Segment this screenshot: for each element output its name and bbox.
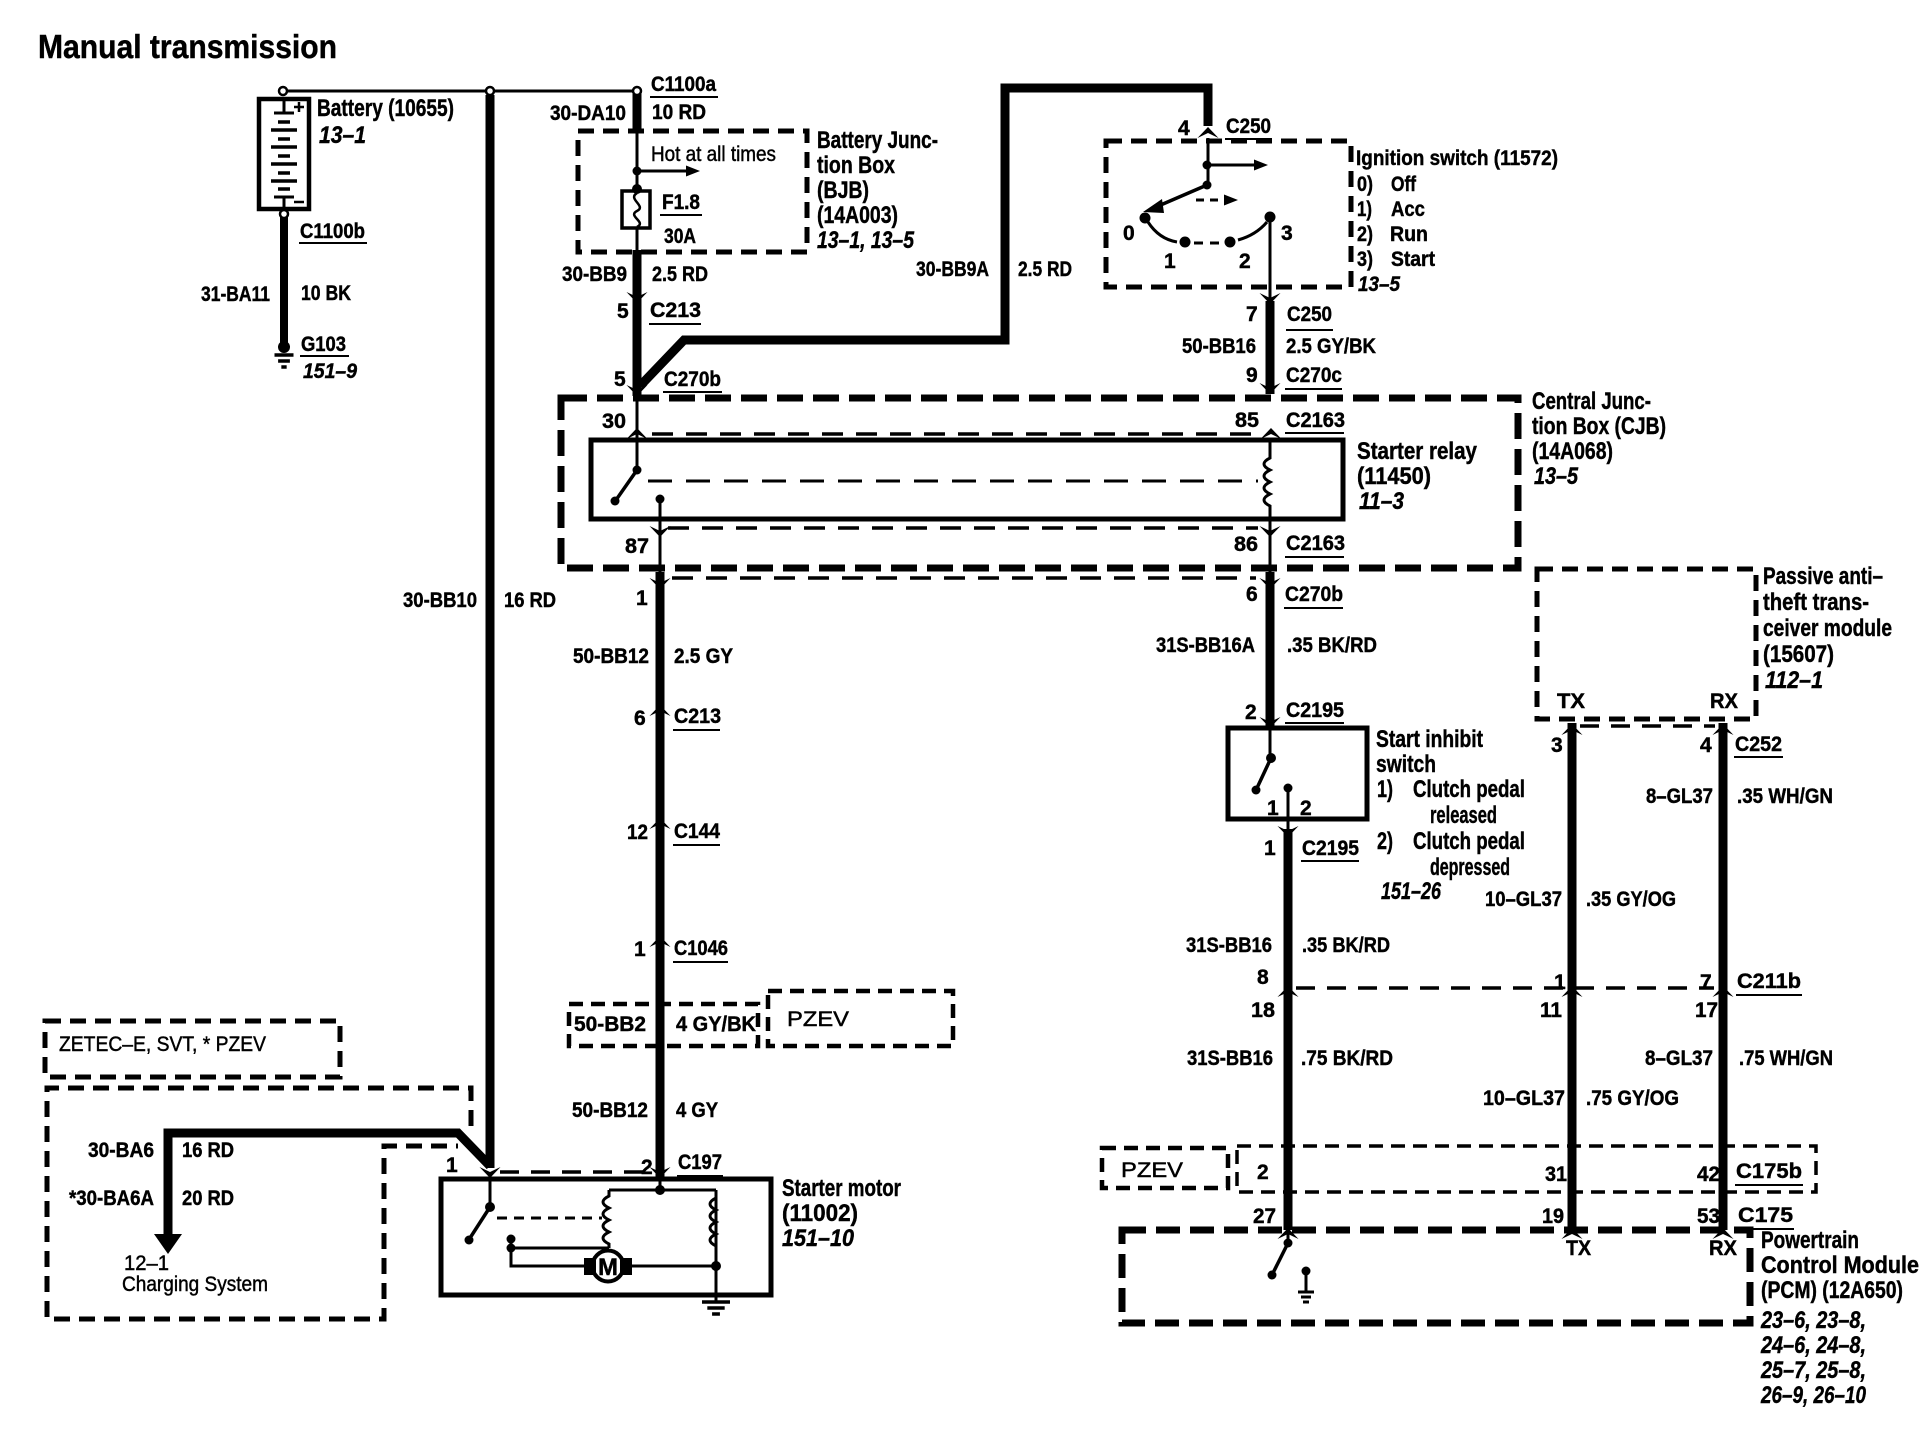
battery junction box BJB dashed box: [578, 131, 807, 252]
svg-text:30: 30: [602, 410, 626, 433]
svg-text:tion Box (CJB): tion Box (CJB): [1532, 413, 1666, 440]
node starter pin2 junction: [655, 1185, 665, 1195]
connector C252 pin 3: [1562, 724, 1583, 735]
svg-text:ceiver module: ceiver module: [1763, 615, 1892, 642]
svg-text:PZEV: PZEV: [1121, 1159, 1183, 1182]
svg-text:5: 5: [617, 300, 629, 323]
svg-text:.75 BK/RD: .75 BK/RD: [1301, 1047, 1393, 1070]
svg-text:theft trans-: theft trans-: [1763, 589, 1869, 616]
starter solenoid link dashed: [497, 1217, 602, 1220]
node ground leg junction: [711, 1261, 721, 1271]
svg-text:1: 1: [1267, 797, 1279, 820]
connector C1100b: [280, 210, 288, 218]
ignition switch (11572) dashed box: [1106, 141, 1351, 287]
svg-text:C197: C197: [678, 1151, 722, 1174]
connector C213 pin 5: [627, 292, 648, 303]
svg-text:2): 2): [1377, 828, 1393, 855]
svg-text:1): 1): [1377, 776, 1393, 803]
node fuse top terminal: [632, 184, 642, 194]
connector C250 pin 4: [1198, 127, 1219, 138]
svg-text:50-BB16: 50-BB16: [1182, 335, 1256, 358]
connector C2195 pin 2: [1260, 717, 1281, 728]
svg-text:9: 9: [1246, 364, 1258, 387]
connector C144 pin 12: [650, 818, 671, 829]
connector line C197: [500, 1170, 650, 1174]
svg-text:30-BB10: 30-BB10: [403, 589, 477, 612]
wire inhibit pin 1 out: [1287, 788, 1290, 829]
svg-text:1: 1: [636, 587, 648, 610]
svg-text:Starter relay: Starter relay: [1357, 438, 1478, 465]
connector C211b pin 1: [1562, 986, 1583, 997]
wire motor loop left: [511, 1248, 585, 1266]
svg-text:ZETEC–E, SVT, * PZEV: ZETEC–E, SVT, * PZEV: [59, 1033, 266, 1056]
svg-text:11: 11: [1540, 999, 1562, 1022]
svg-text:0): 0): [1357, 172, 1373, 196]
connector C270b pin 1: [650, 578, 671, 589]
svg-text:(15607): (15607): [1763, 641, 1834, 668]
start inhibit switch contact: [1252, 728, 1293, 795]
ground G103: [275, 341, 294, 367]
svg-text:depressed: depressed: [1430, 854, 1510, 881]
powertrain control module PCM dashed box: [1122, 1230, 1750, 1323]
svg-text:7: 7: [1700, 971, 1712, 994]
connector line C252: [1580, 724, 1715, 728]
node battery positive terminal: [279, 87, 287, 95]
svg-text:87: 87: [625, 535, 649, 558]
label Passive anti-theft transceiver module (15607): [1763, 563, 1892, 694]
svg-text:10–GL37: 10–GL37: [1483, 1087, 1565, 1110]
start inhibit switch box: [1228, 728, 1367, 819]
svg-text:.35 BK/RD: .35 BK/RD: [1302, 934, 1390, 957]
connector C175 pin 27: [1278, 1228, 1299, 1239]
wire TX 10-GL37: [1568, 723, 1577, 1230]
svg-text:TX: TX: [1566, 1237, 1591, 1260]
ignition switch internals: [1140, 138, 1276, 248]
variant tag PZEV left: [768, 991, 953, 1046]
svg-text:85: 85: [1235, 409, 1259, 432]
svg-text:(BJB): (BJB): [817, 177, 869, 204]
connector C250 pin 7: [1260, 293, 1281, 304]
svg-text:C1100b: C1100b: [300, 220, 365, 243]
wire solenoid top bus: [609, 1189, 716, 1192]
connector C270c pin 9: [1260, 383, 1281, 394]
svg-text:2: 2: [1300, 797, 1312, 820]
svg-text:2.5 GY: 2.5 GY: [674, 645, 733, 668]
variant tag PZEV right: [1102, 1148, 1228, 1188]
arrow to charging system 12-1: [154, 1234, 182, 1254]
svg-text:(14A068): (14A068): [1532, 438, 1613, 465]
svg-text:53: 53: [1697, 1205, 1720, 1228]
connector C2163 pin 30: [627, 428, 648, 439]
ground starter case: [702, 1295, 730, 1314]
starter relay (11450) box: [591, 440, 1343, 519]
svg-text:C1046: C1046: [674, 937, 728, 960]
connector C213 pin 6: [650, 705, 671, 716]
svg-text:C252: C252: [1735, 733, 1782, 756]
wire contact to pull-in coil: [511, 1247, 609, 1250]
svg-text:Control Module: Control Module: [1761, 1252, 1919, 1279]
svg-text:C2163: C2163: [1286, 409, 1345, 432]
svg-text:Clutch pedal: Clutch pedal: [1413, 828, 1525, 855]
svg-text:12: 12: [627, 821, 648, 844]
wire option box 50-BB2 4 GY/BK: [569, 1004, 758, 1046]
svg-text:4: 4: [1178, 117, 1190, 140]
wire top bus battery to C1100a: [283, 90, 637, 93]
svg-text:Ignition switch (11572): Ignition switch (11572): [1356, 146, 1558, 170]
svg-text:16 RD: 16 RD: [182, 1139, 234, 1162]
connector C211b pin 8: [1278, 986, 1299, 997]
node hot feed junction: [633, 167, 642, 176]
svg-text:released: released: [1430, 802, 1497, 829]
svg-text:151–26: 151–26: [1381, 878, 1441, 905]
svg-text:tion Box: tion Box: [817, 152, 896, 179]
svg-text:30A: 30A: [664, 225, 696, 248]
svg-text:18: 18: [1251, 999, 1275, 1022]
svg-text:50-BB2: 50-BB2: [574, 1013, 646, 1036]
PCM internal switch: [1268, 1230, 1293, 1280]
svg-text:42: 42: [1697, 1163, 1720, 1186]
svg-text:86: 86: [1234, 533, 1258, 556]
passive anti-theft transceiver module dashed box: [1537, 569, 1756, 719]
svg-text:50-BB12: 50-BB12: [572, 1099, 648, 1122]
svg-text:C144: C144: [674, 820, 720, 843]
svg-text:1: 1: [1264, 837, 1276, 860]
svg-text:1: 1: [1554, 971, 1566, 994]
svg-text:.35 BK/RD: .35 BK/RD: [1287, 634, 1377, 657]
wire relay pin 86 down: [1269, 519, 1272, 572]
svg-text:PZEV: PZEV: [787, 1008, 849, 1031]
svg-text:G103: G103: [301, 333, 346, 356]
svg-text:Battery (10655): Battery (10655): [317, 95, 454, 122]
starter pull-in coil: [603, 1190, 609, 1248]
wire 31S-BB16A .35 BK/RD: [1266, 572, 1275, 727]
connector C175 pin 19: [1562, 1228, 1583, 1239]
svg-text:25–7, 25–8,: 25–7, 25–8,: [1760, 1357, 1866, 1384]
svg-text:1: 1: [634, 938, 646, 961]
svg-text:(11002): (11002): [782, 1200, 858, 1227]
svg-text:151–10: 151–10: [782, 1225, 855, 1252]
svg-text:31S-BB16: 31S-BB16: [1186, 934, 1272, 957]
svg-text:13–5: 13–5: [1358, 272, 1401, 296]
wire relay pin 87 down: [659, 499, 662, 572]
svg-text:Acc: Acc: [1391, 197, 1425, 221]
connector C1046 pin 1: [650, 936, 671, 947]
variant box ZETEC-E SVT PZEV: [45, 1021, 340, 1077]
connector C252 pin 4: [1713, 724, 1734, 735]
svg-text:C270c: C270c: [1286, 364, 1342, 387]
svg-text:.75 WH/GN: .75 WH/GN: [1739, 1047, 1833, 1070]
svg-text:3): 3): [1357, 247, 1373, 271]
starter motor (11002) box: [441, 1179, 771, 1295]
relay mechanical link dashed: [648, 480, 1258, 483]
svg-text:11–3: 11–3: [1359, 488, 1405, 515]
svg-text:C2195: C2195: [1302, 837, 1359, 860]
wire pin30 into relay: [636, 398, 639, 470]
svg-text:RX: RX: [1710, 690, 1738, 713]
svg-text:50-BB12: 50-BB12: [573, 645, 649, 668]
svg-text:C1100a: C1100a: [651, 73, 716, 96]
wire 31S-BB16 .75 BK/RD: [1284, 988, 1293, 1230]
svg-text:TX: TX: [1557, 690, 1585, 713]
svg-text:24–6, 24–8,: 24–6, 24–8,: [1760, 1332, 1866, 1359]
svg-text:27: 27: [1253, 1205, 1276, 1228]
connector line C211b: [1296, 986, 1714, 990]
svg-text:31: 31: [1545, 1163, 1567, 1186]
svg-text:2.5 GY/BK: 2.5 GY/BK: [1286, 335, 1376, 358]
starter fixed contact: [507, 1235, 516, 1253]
svg-text:C211b: C211b: [1737, 970, 1801, 993]
svg-text:1: 1: [1164, 250, 1176, 273]
svg-text:7: 7: [1246, 303, 1258, 326]
wire RX 8-GL37: [1719, 723, 1728, 1230]
svg-text:C270b: C270b: [1285, 583, 1343, 606]
svg-text:Off: Off: [1391, 172, 1417, 196]
central junction box CJB dashed box: [561, 398, 1518, 568]
svg-text:30-BB9A: 30-BB9A: [916, 258, 989, 281]
svg-text:(14A003): (14A003): [817, 202, 898, 229]
svg-text:(PCM) (12A650): (PCM) (12A650): [1761, 1277, 1903, 1304]
node connector C1100a: [633, 87, 641, 95]
svg-text:8–GL37: 8–GL37: [1646, 785, 1713, 808]
svg-text:2.5 RD: 2.5 RD: [1018, 258, 1072, 281]
arrow hot at all times: [637, 170, 688, 173]
connector C270b pin 6: [1260, 578, 1281, 589]
svg-text:Start: Start: [1391, 247, 1435, 271]
wire 50-BB12 2.5 GY relay to starter: [656, 572, 665, 1178]
svg-text:4 GY: 4 GY: [676, 1099, 718, 1122]
svg-text:10–GL37: 10–GL37: [1485, 888, 1562, 911]
svg-text:19: 19: [1542, 1205, 1564, 1228]
connector C2163 pin 85: [1261, 428, 1282, 439]
svg-text:6: 6: [1246, 583, 1258, 606]
connector C2163 pin 87: [650, 526, 671, 537]
svg-text:C250: C250: [1287, 303, 1332, 326]
svg-text:30-DA10: 30-DA10: [550, 102, 626, 125]
svg-text:13–1, 13–5: 13–1, 13–5: [817, 227, 915, 254]
svg-text:C250: C250: [1226, 115, 1271, 138]
PCM internal ground: [1298, 1267, 1314, 1303]
connector C175b dashed box: [1237, 1146, 1816, 1192]
label Start inhibit switch legend: [1376, 726, 1525, 905]
svg-text:Hot at all times: Hot at all times: [651, 143, 776, 166]
svg-text:17: 17: [1695, 999, 1718, 1022]
svg-text:.75 GY/OG: .75 GY/OG: [1586, 1087, 1679, 1110]
wire 30-BB9A 2.5 RD to ignition switch: [640, 88, 1208, 386]
wire ignition pin 3 down: [1269, 220, 1272, 303]
svg-text:Manual transmission: Manual transmission: [38, 28, 337, 65]
svg-text:F1.8: F1.8: [662, 191, 700, 214]
svg-text:switch: switch: [1376, 751, 1436, 778]
label Central Junction Box (CJB) (14A068): [1532, 388, 1666, 490]
connector C270b pin 5: [627, 385, 648, 396]
svg-text:M: M: [598, 1254, 618, 1281]
connector line C270b lower: [672, 576, 1256, 580]
svg-text:2: 2: [1245, 701, 1257, 724]
connector line C2163 lower: [668, 526, 1258, 530]
relay coil: [1264, 440, 1270, 519]
wire 31S-BB16 .35 BK/RD: [1284, 829, 1293, 988]
battery B1 (10655): [259, 99, 309, 209]
svg-text:1): 1): [1357, 197, 1372, 221]
svg-text:C213: C213: [674, 705, 721, 728]
svg-text:C175b: C175b: [1736, 1160, 1802, 1183]
svg-text:30-BB9: 30-BB9: [562, 263, 627, 286]
svg-text:20 RD: 20 RD: [182, 1187, 234, 1210]
connector C197 pin 1: [480, 1167, 501, 1178]
svg-text:C2195: C2195: [1286, 699, 1344, 722]
connector C2163 pin 86: [1260, 526, 1281, 537]
motor M armature: [584, 1251, 632, 1282]
svg-text:Passive anti–: Passive anti–: [1763, 563, 1883, 590]
svg-text:Powertrain: Powertrain: [1761, 1227, 1859, 1254]
svg-text:2: 2: [1239, 250, 1251, 273]
wire starter pin2 stub: [659, 1179, 662, 1190]
wire battery negative 31-BA11 10 BK: [280, 213, 288, 348]
svg-text:151–9: 151–9: [303, 360, 357, 383]
svg-text:13–5: 13–5: [1534, 463, 1579, 490]
connector C2195 pin 1: [1278, 826, 1299, 837]
svg-text:2): 2): [1357, 222, 1373, 246]
label Powertrain Control Module (PCM) (12A650): [1760, 1227, 1919, 1409]
svg-text:26–9, 26–10: 26–9, 26–10: [1760, 1382, 1866, 1409]
node junction 30-BB10: [486, 87, 494, 95]
svg-text:6: 6: [634, 707, 646, 730]
svg-text:1: 1: [446, 1154, 458, 1177]
svg-text:2.5 RD: 2.5 RD: [652, 263, 708, 286]
svg-text:(11450): (11450): [1357, 463, 1431, 490]
svg-text:Battery Junc-: Battery Junc-: [817, 127, 938, 154]
svg-text:3: 3: [1281, 222, 1293, 245]
relay switch contact: [611, 466, 665, 506]
label Battery Junction Box (BJB) (14A003): [817, 127, 938, 254]
svg-text:*30-BA6A: *30-BA6A: [69, 1187, 154, 1210]
connector C197 pin 2: [650, 1167, 671, 1178]
connector C211b pin 7: [1713, 986, 1734, 997]
svg-text:31-BA11: 31-BA11: [201, 283, 270, 306]
wire 30-BB9 2.5 RD fuse output: [636, 228, 639, 252]
svg-text:4: 4: [1700, 734, 1712, 757]
connector line C2163 upper: [652, 432, 1256, 436]
svg-text:C213: C213: [650, 299, 701, 322]
connector C175 pin 53: [1713, 1228, 1734, 1239]
svg-text:Central Junc-: Central Junc-: [1532, 388, 1651, 415]
svg-text:.35 GY/OG: .35 GY/OG: [1586, 888, 1676, 911]
svg-text:5: 5: [614, 368, 626, 391]
svg-text:23–6, 23–8,: 23–6, 23–8,: [1760, 1307, 1866, 1334]
svg-text:12–1: 12–1: [124, 1252, 169, 1275]
wire 30-BA6 16 RD to charging system: [168, 1133, 490, 1238]
svg-text:C270b: C270b: [664, 368, 721, 391]
wire 50-BB16 2.5 GY/BK: [1266, 301, 1275, 394]
svg-text:13–1: 13–1: [319, 122, 366, 149]
svg-text:30-BA6: 30-BA6: [88, 1139, 154, 1162]
svg-text:2: 2: [641, 1156, 653, 1179]
svg-text:Starter motor: Starter motor: [782, 1175, 901, 1202]
label Starter relay (11450): [1357, 438, 1478, 515]
label Ignition switch legend: [1356, 146, 1558, 296]
svg-text:10 RD: 10 RD: [652, 101, 706, 124]
svg-text:10 BK: 10 BK: [301, 282, 351, 305]
svg-text:8–GL37: 8–GL37: [1645, 1047, 1713, 1070]
svg-text:Clutch pedal: Clutch pedal: [1413, 776, 1525, 803]
svg-text:31S-BB16: 31S-BB16: [1187, 1047, 1273, 1070]
wire 30-BB10 16 RD battery to starter: [486, 95, 495, 1168]
svg-text:Run: Run: [1390, 222, 1428, 246]
svg-text:31S-BB16A: 31S-BB16A: [1156, 634, 1255, 657]
wire motor to ground leg: [632, 1265, 716, 1268]
svg-text:Start inhibit: Start inhibit: [1376, 726, 1483, 753]
starter hold-in coil: [710, 1190, 716, 1266]
svg-text:C175: C175: [1738, 1204, 1793, 1227]
svg-text:8: 8: [1257, 966, 1269, 989]
label Starter motor (11002): [782, 1175, 901, 1252]
variant region dashed outline: [47, 1088, 471, 1319]
wire inside BJB to fuse: [636, 131, 639, 191]
svg-text:112–1: 112–1: [1765, 667, 1823, 694]
svg-text:C2163: C2163: [1286, 532, 1345, 555]
fuse F1.8 30A: [622, 191, 650, 228]
wire C1100a down into BJB: [633, 94, 642, 133]
svg-text:4 GY/BK: 4 GY/BK: [676, 1013, 756, 1036]
svg-text:Charging System: Charging System: [122, 1273, 268, 1296]
svg-text:16 RD: 16 RD: [504, 589, 556, 612]
svg-text:3: 3: [1551, 734, 1563, 757]
svg-text:.35 WH/GN: .35 WH/GN: [1737, 785, 1833, 808]
svg-text:2: 2: [1257, 1161, 1269, 1184]
starter solenoid switch: [465, 1179, 496, 1245]
svg-text:RX: RX: [1709, 1237, 1737, 1260]
svg-text:0: 0: [1123, 222, 1135, 245]
